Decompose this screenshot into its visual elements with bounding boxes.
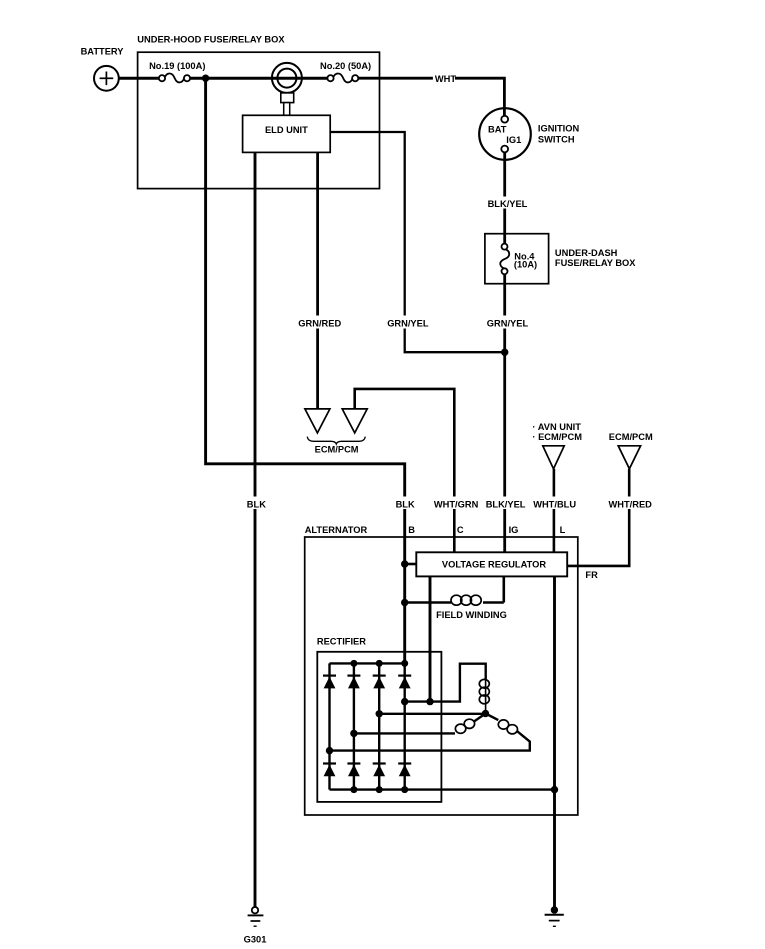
field winding xyxy=(405,576,507,620)
svg-text:C: C xyxy=(457,525,464,535)
svg-text:FR: FR xyxy=(585,570,598,580)
wire WHT/GRN: alternator C terminal to ECM/PCM arrow xyxy=(355,389,455,553)
diode column 4 xyxy=(398,663,411,789)
svg-text:IGNITION: IGNITION xyxy=(538,123,580,133)
wire WHT: fuse No.20 to ignition switch BAT xyxy=(358,78,505,116)
rectifier box xyxy=(317,636,442,802)
svg-text:BLK/YEL: BLK/YEL xyxy=(486,499,526,509)
svg-text:WHT/BLU: WHT/BLU xyxy=(533,499,576,509)
svg-text:UNDER-HOOD FUSE/RELAY BOX: UNDER-HOOD FUSE/RELAY BOX xyxy=(137,35,285,45)
stator phase C wire xyxy=(486,714,499,721)
wire: B column tap to voltage regulator xyxy=(405,563,417,566)
terminal letters B C IG L xyxy=(408,525,565,535)
ELD unit box xyxy=(243,115,331,152)
svg-text:SWITCH: SWITCH xyxy=(538,134,575,144)
svg-text:· AVN UNIT: · AVN UNIT xyxy=(532,422,581,432)
svg-text:B: B xyxy=(408,525,415,535)
fuse No.4 (10A) xyxy=(500,244,537,275)
fuse No.20 (50A) xyxy=(320,61,371,82)
ignition switch xyxy=(479,108,579,160)
svg-text:VOLTAGE REGULATOR: VOLTAGE REGULATOR xyxy=(442,560,546,570)
stator phase B coil xyxy=(455,719,474,733)
svg-text:ALTERNATOR: ALTERNATOR xyxy=(305,525,368,535)
svg-text:FIELD WINDING: FIELD WINDING xyxy=(436,610,507,620)
wire BLK: ELD unit to G301 xyxy=(254,152,257,907)
svg-text:L: L xyxy=(560,525,566,535)
stator phase A coil xyxy=(479,679,489,714)
rectifier bottom bus xyxy=(330,788,555,790)
AVN/ECM arrow (WHT/BLU) xyxy=(532,422,582,469)
alternator box xyxy=(305,525,578,815)
wire GRN/YEL: ELD unit right side to IG junction xyxy=(330,132,504,352)
svg-text:UNDER-DASH: UNDER-DASH xyxy=(555,248,618,258)
battery xyxy=(81,47,125,91)
under-dash fuse/relay box xyxy=(485,234,636,284)
voltage regulator xyxy=(416,552,598,580)
node: phase B to diode column 2 xyxy=(350,730,357,737)
svg-text:GRN/YEL: GRN/YEL xyxy=(387,318,429,328)
ground G301 xyxy=(244,907,267,944)
svg-text:ELD UNIT: ELD UNIT xyxy=(265,125,308,135)
svg-text:ECM/PCM: ECM/PCM xyxy=(609,432,653,442)
diode column 3 xyxy=(373,663,386,789)
ECM/PCM arrows (GRN/RED and WHT/GRN) xyxy=(305,409,367,455)
stator phase B wire xyxy=(354,732,455,734)
rectifier top bus xyxy=(330,662,405,664)
svg-text:FUSE/RELAY BOX: FUSE/RELAY BOX xyxy=(555,258,636,268)
fuse No.19 (100A) xyxy=(149,61,205,82)
svg-text:GRN/RED: GRN/RED xyxy=(298,318,341,328)
diode column 1 xyxy=(323,663,336,789)
stator phase A wire xyxy=(405,664,486,702)
stator phase C coil xyxy=(498,720,517,734)
svg-text:BLK/YEL: BLK/YEL xyxy=(488,199,528,209)
svg-text:BLK: BLK xyxy=(247,499,266,509)
node: star point xyxy=(482,710,489,717)
wire labels row: colors xyxy=(243,497,655,510)
wire WHT/BLU: AVN arrow to L terminal xyxy=(553,469,556,553)
svg-text:IG1: IG1 xyxy=(506,135,521,145)
svg-text:BAT: BAT xyxy=(488,124,507,134)
wire: voltage regulator to rectifier phase A xyxy=(429,576,432,701)
wire: ground column (VR to G101 ground) xyxy=(553,576,556,906)
wire BLK: battery junction down, across, B column down to rectifier xyxy=(206,78,405,663)
node: B tap xyxy=(401,560,408,567)
label WHT on bus xyxy=(433,73,456,85)
node: phase A to VR wire xyxy=(426,698,433,705)
node: phase A to diode column 4 xyxy=(401,698,408,705)
svg-text:RECTIFIER: RECTIFIER xyxy=(317,636,366,646)
stator neutral wire xyxy=(379,713,485,715)
node: neutral to diode column 3 xyxy=(376,710,383,717)
labels GRN/RED GRN/YEL GRN/YEL xyxy=(296,316,528,329)
svg-text:BLK: BLK xyxy=(396,499,415,509)
svg-text:WHT: WHT xyxy=(435,74,456,84)
node: top bus junctions xyxy=(350,660,357,667)
wire BLK/YEL: IG1 to under-dash fuse xyxy=(503,152,506,243)
svg-text:No.20 (50A): No.20 (50A) xyxy=(320,61,371,71)
label BLK/YEL (ignition feed) xyxy=(486,197,528,209)
diode column 2 xyxy=(347,663,360,789)
ELD sensor (current loop on bus) xyxy=(272,63,302,115)
node: battery bus junction xyxy=(202,75,209,82)
svg-text:BATTERY: BATTERY xyxy=(81,47,125,57)
wire WHT/RED: ECM arrow to FR terminal xyxy=(567,469,629,566)
node: phase C to diode column 1 xyxy=(326,747,333,754)
wire GRN/RED: ELD unit to ECM/PCM arrow xyxy=(316,152,319,408)
under-hood fuse/relay box xyxy=(137,35,379,189)
svg-text:No.19 (100A): No.19 (100A) xyxy=(149,61,205,71)
svg-text:ECM/PCM: ECM/PCM xyxy=(315,444,359,454)
ECM/PCM arrow (WHT/RED) xyxy=(609,432,653,469)
svg-text:WHT/GRN: WHT/GRN xyxy=(434,499,479,509)
svg-text:IG: IG xyxy=(509,525,519,535)
node: GRN/YEL junction xyxy=(501,349,508,356)
svg-text:G301: G301 xyxy=(244,934,267,944)
svg-text:· ECM/PCM: · ECM/PCM xyxy=(532,432,582,442)
svg-text:(10A): (10A) xyxy=(514,260,537,270)
wire GRN/YEL: fuse No.4 down to IG terminal / voltage regulator xyxy=(503,274,506,552)
wire fuse No.19 to fuse No.20 (through ELD sensor) xyxy=(190,77,328,80)
node: field winding tap on B column xyxy=(401,599,408,606)
node: bottom bus junctions xyxy=(350,786,357,793)
wire battery to fuse No.19 xyxy=(119,77,159,80)
svg-text:GRN/YEL: GRN/YEL xyxy=(487,318,529,328)
ground (alternator case) xyxy=(545,906,564,926)
svg-text:WHT/RED: WHT/RED xyxy=(609,499,653,509)
